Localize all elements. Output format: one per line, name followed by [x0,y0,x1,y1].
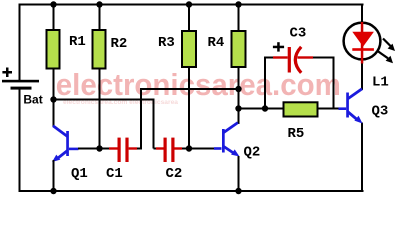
resistor R2 [93,30,106,69]
svg-text:Bat: Bat [23,93,42,107]
wire cross-couple R1 node horizontal [53,99,155,101]
transistor Q2 [214,123,240,157]
transistor Q1 [66,131,78,156]
svg-text:L1: L1 [372,75,389,91]
svg-text:R2: R2 [111,36,128,52]
wire R1 top [53,5,55,30]
capacitor C2 [154,138,190,162]
node dot Q2 collector/R5 [235,105,241,111]
svg-text:C1: C1 [106,166,123,182]
node dot bottom Q2 emitter [235,188,241,194]
wire R2 top [99,5,101,30]
wire Q1 emitter down [53,160,55,191]
LED L1 [344,22,395,64]
wire Q2 emitter down [238,156,240,191]
svg-text:R3: R3 [158,35,175,51]
node dot top R3 [186,1,192,7]
resistor R3 [182,31,196,67]
transistor Q3 [339,89,363,124]
wire Q3 emitter to bottom rail [361,123,363,193]
wire left (battery bottom) [19,88,21,192]
node dot top R2 [96,1,102,7]
capacitor C1 [100,138,143,162]
svg-text:C2: C2 [166,166,183,182]
svg-text:Q3: Q3 [372,104,389,120]
wire R3 top [188,5,190,31]
svg-text:Q1: Q1 [71,166,88,182]
wire Q2 base from node [189,148,214,150]
wire R2 bottom to base row [99,69,101,150]
node dot R2/Q1 base [96,145,102,151]
wire R1 bottom to Q1 collector [53,69,55,127]
wire left (battery top) [19,4,21,82]
resistor R1 [47,30,60,69]
wire top rail [19,4,364,6]
wire R4 top [238,5,240,31]
node dot C3 left leg [262,105,268,111]
wire C3 loop right vertical [333,57,335,109]
wire R3 bottom to base row [188,67,190,150]
svg-text:Q2: Q2 [244,145,261,161]
svg-text:R5: R5 [288,126,305,142]
resistor R5 [284,102,318,116]
wire C1-right to R4 horizontal [140,88,240,90]
capacitor C3 [264,42,335,73]
wire bottom rail [19,190,364,192]
svg-text:electronicsarea.com electronic: electronicsarea.com electronicsarea [63,100,179,106]
wire Q2 collector row to R5 [238,108,283,110]
wire LED to Q3 collector [361,61,363,90]
svg-text:R1: R1 [69,34,86,50]
wire C3 loop left vertical [264,57,266,109]
wire C1 right up [140,89,142,149]
wire Q1 base to R2/C1 node [78,148,100,150]
wire right top to LED [361,4,363,23]
node dot C2/R3/Q2 base [186,145,192,151]
wire cross-couple down to C2 left [153,99,155,149]
battery Bat [2,68,39,90]
node dot top R4 [235,1,241,7]
node dot bottom Q1 emitter [50,188,56,194]
node dot top R1 [50,1,56,7]
node dot R1/Q1 collector [50,96,56,102]
wire R4 bottom to Q2 collector [238,67,240,124]
svg-text:C3: C3 [290,26,307,42]
node dot C1/R4 [235,86,241,92]
wire R5 right to Q3 base [319,108,339,110]
resistor R4 [232,31,246,67]
svg-text:R4: R4 [208,35,225,51]
